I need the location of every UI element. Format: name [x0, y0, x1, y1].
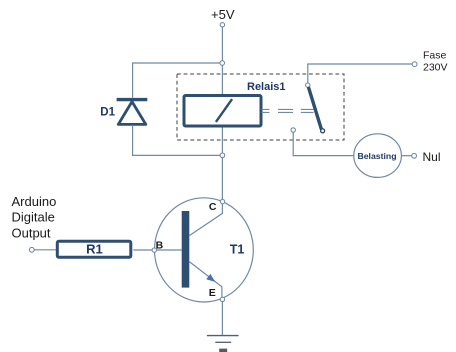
wire load to Nul: [401, 155, 411, 157]
emitter lead: [189, 262, 222, 298]
output terminal: [29, 247, 34, 252]
svg-text:E: E: [209, 287, 216, 299]
relay dashed enclosure: [177, 74, 344, 140]
ground bar 1: [207, 335, 239, 337]
emitter arrow: [206, 274, 215, 282]
svg-text:230V: 230V: [423, 61, 448, 73]
relay coil diagonal: [216, 99, 232, 122]
wire switch to load: [293, 132, 354, 155]
switch top terminal: [306, 83, 310, 87]
switch blade end circle: [321, 129, 325, 133]
svg-text:Output: Output: [12, 225, 51, 240]
svg-text:+5V: +5V: [211, 7, 235, 22]
switch fixed terminal: [291, 128, 295, 132]
transistor base bar: [182, 211, 190, 288]
collector lead: [189, 204, 222, 236]
ground bar 2: [215, 341, 231, 343]
load Belasting circle: [354, 134, 402, 178]
node junction bottom: [220, 153, 225, 158]
switch blade: [309, 88, 321, 128]
node junction top: [220, 61, 225, 66]
node E: [220, 297, 224, 301]
svg-text:Digitale: Digitale: [12, 209, 55, 224]
resistor R1 box: [57, 241, 131, 257]
+5V terminal: [220, 23, 224, 27]
svg-text:Belasting: Belasting: [357, 151, 396, 161]
wire emitter to ground: [221, 302, 223, 335]
svg-text:R1: R1: [86, 241, 103, 256]
wire +5V down to node: [221, 27, 223, 61]
svg-text:B: B: [156, 239, 164, 251]
ground bar 3: [219, 349, 227, 352]
diode D1 cathode bar: [117, 98, 148, 101]
wire to Fase: [308, 64, 412, 83]
svg-text:C: C: [209, 201, 217, 213]
relay coil box: [184, 96, 261, 127]
svg-text:Relais1: Relais1: [247, 81, 286, 93]
svg-text:D1: D1: [100, 107, 115, 119]
wire relay vertical: [221, 65, 223, 199]
wire diode bottom to node: [133, 125, 220, 155]
transistor T1 body: [155, 198, 254, 302]
node B: [152, 248, 156, 252]
wire terminal to R1: [34, 249, 57, 251]
Nul terminal: [412, 153, 417, 158]
diode D1 triangle: [118, 102, 146, 125]
wire top branch to diode: [133, 63, 221, 98]
svg-text:Fase: Fase: [423, 50, 447, 62]
svg-text:T1: T1: [230, 243, 245, 257]
mechanical link dashes: [262, 108, 314, 110]
base wire inside: [157, 249, 182, 251]
node C: [220, 199, 224, 203]
svg-text:Arduino: Arduino: [12, 194, 57, 209]
svg-text:Nul: Nul: [423, 150, 441, 164]
wire R1 to base node: [133, 249, 152, 251]
Fase terminal: [412, 62, 417, 67]
